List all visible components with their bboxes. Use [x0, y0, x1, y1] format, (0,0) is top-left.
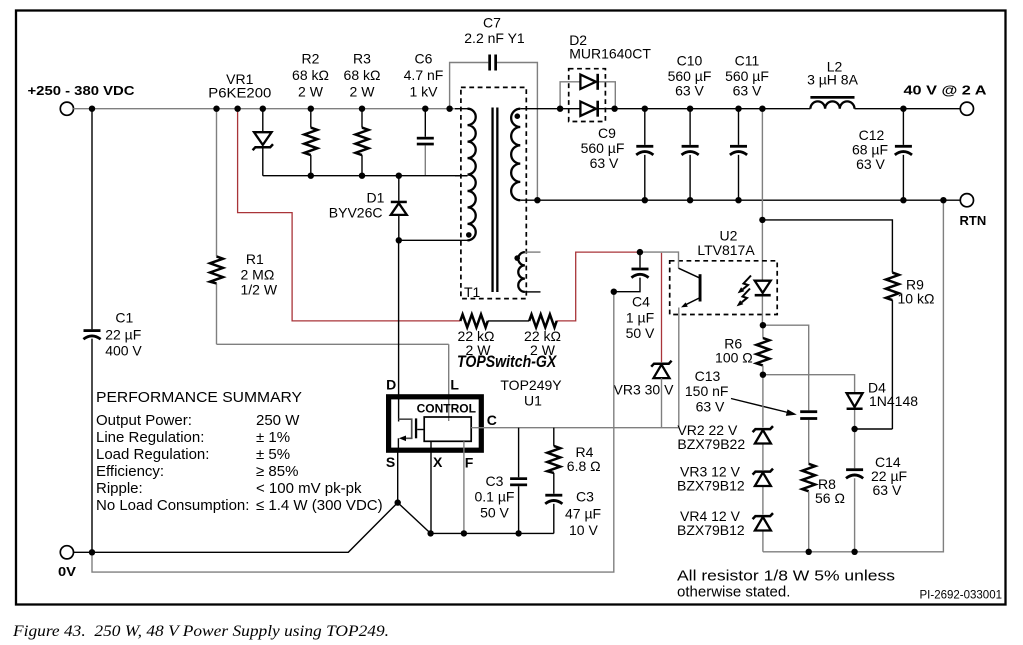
- svg-text:R3: R3: [353, 51, 371, 67]
- capacitor C13 150nF: [685, 368, 817, 420]
- svg-text:63 V: 63 V: [733, 83, 762, 99]
- U1 MOSFET: [398, 418, 424, 452]
- capacitor C3 0.1uF: [475, 428, 528, 534]
- wire: drain vertical to U1: [398, 240, 400, 421]
- svg-text:1 kV: 1 kV: [409, 84, 438, 100]
- svg-text:All resistor 1/8 W 5% unless: All resistor 1/8 W 5% unless: [677, 568, 895, 585]
- inductor L2: [807, 59, 859, 109]
- svg-text:400 V: 400 V: [105, 343, 142, 359]
- svg-text:C11: C11: [735, 53, 760, 69]
- svg-text:63 V: 63 V: [873, 482, 902, 498]
- wire: X pin: [430, 441, 432, 533]
- svg-text:D: D: [386, 377, 396, 393]
- svg-text:RTN: RTN: [960, 213, 987, 228]
- U1 block outline: [389, 397, 482, 450]
- resistor R9 10k: [886, 273, 935, 429]
- TVS VR1 P6KE200: [208, 71, 273, 176]
- wire: primary bottom to drain node: [399, 239, 468, 241]
- svg-text:2 MΩ: 2 MΩ: [241, 267, 275, 283]
- svg-text:0.1 µF: 0.1 µF: [475, 489, 515, 505]
- svg-text:63 V: 63 V: [675, 83, 704, 99]
- svg-text:47 µF: 47 µF: [565, 506, 601, 522]
- input terminal +250-380 VDC: [28, 83, 136, 115]
- svg-text:C13: C13: [695, 368, 721, 384]
- svg-text:≥ 85%: ≥ 85%: [256, 463, 298, 480]
- svg-text:X: X: [433, 454, 443, 470]
- TOPSwitch-GX title: [457, 353, 557, 371]
- RTN terminal: [960, 194, 987, 228]
- svg-text:+250 - 380 VDC: +250 - 380 VDC: [28, 83, 136, 98]
- svg-text:63 V: 63 V: [696, 399, 725, 415]
- svg-text:R2: R2: [302, 51, 320, 67]
- 22k resistor pair (line sense): [458, 314, 495, 358]
- opto transistor: [679, 268, 702, 307]
- wire: red VR3 30V top lead: [661, 253, 663, 362]
- svg-text:2.2 nF Y1: 2.2 nF Y1: [464, 30, 525, 46]
- svg-text:U1: U1: [524, 393, 542, 409]
- svg-text:0V: 0V: [58, 564, 76, 579]
- capacitor C9: [581, 109, 654, 201]
- svg-text:LTV817A: LTV817A: [697, 242, 755, 258]
- svg-text:BYV26C: BYV26C: [329, 205, 383, 221]
- svg-text:C10: C10: [677, 53, 703, 69]
- svg-text:C3: C3: [576, 489, 594, 505]
- opto photon arrows: [737, 276, 751, 307]
- resistor R1 2 MOhm: [210, 251, 278, 298]
- capacitor C12: [852, 109, 912, 201]
- svg-text:150 nF: 150 nF: [685, 383, 729, 399]
- wire: C pin line: [471, 427, 678, 429]
- wire: D4 node down to C14: [854, 429, 856, 552]
- svg-text:C6: C6: [415, 51, 433, 67]
- svg-text:L: L: [450, 377, 459, 393]
- transformer bias winding: [514, 252, 540, 292]
- svg-text:≤ 1.4 W (300 VDC): ≤ 1.4 W (300 VDC): [256, 497, 383, 514]
- svg-text:1N4148: 1N4148: [869, 393, 918, 409]
- wire: output rail: [520, 108, 960, 110]
- wire: S pin to kelvin point: [397, 452, 399, 502]
- wire: opto emitter down to C pin line: [678, 308, 680, 428]
- wire: R6 bottom to D4: [763, 375, 855, 393]
- svg-text:250 W: 250 W: [256, 412, 300, 429]
- wire: red 22k chain to C4 top: [557, 252, 638, 321]
- wire: F pin: [463, 441, 465, 533]
- svg-text:CONTROL: CONTROL: [417, 402, 476, 416]
- wire: S/X/F bottom bus: [431, 532, 554, 534]
- performance summary text: [96, 389, 383, 514]
- resistor R4 6.8 Ohm: [547, 428, 600, 494]
- wire: clamp bottom bus: [263, 175, 468, 177]
- svg-text:6.8 Ω: 6.8 Ω: [567, 458, 601, 474]
- svg-text:BZX79B22: BZX79B22: [677, 436, 745, 452]
- transformer T1 dashed box: [461, 87, 526, 300]
- wire: R9 top link: [762, 220, 892, 273]
- svg-text:P6KE200: P6KE200: [208, 85, 271, 101]
- svg-text:PI-2692-033001: PI-2692-033001: [920, 590, 1002, 602]
- capacitor C11: [725, 53, 769, 201]
- svg-text:22 µF: 22 µF: [105, 327, 141, 343]
- output terminal 40V: [904, 83, 988, 116]
- wire: red line-sense feed (rail to 22k chain): [238, 109, 461, 321]
- capacitor C7 2.2nF Y1: [464, 15, 525, 71]
- svg-text:BZX79B12: BZX79B12: [677, 522, 745, 538]
- svg-text:TOP249Y: TOP249Y: [500, 377, 562, 393]
- wire: top HV rail: [73, 108, 458, 110]
- U1 CONTROL inner box: [417, 402, 476, 442]
- wire: opto LED node to R6: [762, 325, 764, 338]
- svg-text:Figure 43. 250 W, 48 V Power: Figure 43. 250 W, 48 V Power Supply usin…: [12, 623, 389, 640]
- svg-text:68 kΩ: 68 kΩ: [292, 67, 329, 83]
- 0V terminal: [58, 546, 76, 579]
- svg-text:No Load Consumption:: No Load Consumption:: [96, 497, 249, 514]
- diode D1 BYV26C: [329, 176, 407, 241]
- svg-text:Ripple:: Ripple:: [96, 480, 143, 497]
- svg-text:Load Regulation:: Load Regulation:: [96, 446, 209, 463]
- svg-text:1 µF: 1 µF: [626, 310, 654, 326]
- svg-text:10 kΩ: 10 kΩ: [898, 291, 935, 307]
- zener VR3 12V BZX79B12: [677, 464, 773, 515]
- svg-text:100 Ω: 100 Ω: [715, 350, 753, 366]
- wire: zener bottom bus to RTN: [763, 200, 944, 552]
- svg-text:63 V: 63 V: [856, 156, 885, 172]
- capacitor C6 4.7nF: [404, 51, 444, 176]
- svg-text:63 V: 63 V: [590, 155, 619, 171]
- svg-text:C7: C7: [483, 15, 501, 31]
- transformer core: [491, 108, 493, 293]
- svg-text:MUR1640CT: MUR1640CT: [569, 46, 651, 62]
- zener VR3 30V: [614, 361, 675, 428]
- svg-text:T1: T1: [464, 284, 481, 300]
- wire: C13 branch: [763, 325, 809, 464]
- transformer primary winding: [455, 109, 476, 241]
- zener VR2 22V BZX79B22: [677, 375, 773, 470]
- svg-text:C9: C9: [598, 125, 616, 141]
- svg-text:68 kΩ: 68 kΩ: [344, 67, 381, 83]
- svg-text:56 Ω: 56 Ω: [815, 490, 845, 506]
- svg-text:otherwise stated.: otherwise stated.: [677, 584, 790, 601]
- wire: C4 return to 0V: [92, 292, 614, 572]
- svg-text:PERFORMANCE SUMMARY: PERFORMANCE SUMMARY: [96, 389, 302, 406]
- wire: R1 / line-sense branch: [217, 109, 449, 421]
- capacitor C14 22uF: [846, 454, 907, 498]
- svg-text:10 V: 10 V: [569, 522, 598, 538]
- resistor R8 56 Ohm: [802, 464, 845, 552]
- svg-text:560 µF: 560 µF: [581, 140, 625, 156]
- svg-text:± 1%: ± 1%: [256, 429, 290, 446]
- resistor R2 68k: [292, 51, 329, 176]
- svg-text:Output Power:: Output Power:: [96, 412, 192, 429]
- wire: C7 loop: [450, 63, 538, 201]
- capacitor C10: [668, 53, 712, 201]
- capacitor C1: [83, 310, 142, 359]
- diode D4 1N4148: [847, 380, 919, 430]
- svg-text:50 V: 50 V: [480, 505, 509, 521]
- svg-text:Line Regulation:: Line Regulation:: [96, 429, 204, 446]
- wire: D4 cathode to R9 bottom: [855, 428, 893, 430]
- wire: C1 branch vertical: [91, 109, 93, 553]
- wire: opto collector feed from C4 node: [640, 252, 679, 268]
- svg-text:VR3 30 V: VR3 30 V: [614, 382, 675, 398]
- diode D2 MUR1640CT dual: [560, 32, 651, 122]
- svg-text:C: C: [487, 412, 497, 428]
- resistor R3 68k: [344, 51, 381, 176]
- wire: 0V bus with kelvin diagonals: [73, 503, 430, 553]
- svg-text:4.7 nF: 4.7 nF: [404, 67, 444, 83]
- svg-text:2 W: 2 W: [350, 84, 376, 100]
- opto LED: [755, 281, 771, 326]
- svg-text:1/2 W: 1/2 W: [241, 282, 278, 298]
- svg-text:Efficiency:: Efficiency:: [96, 463, 164, 480]
- svg-text:R1: R1: [246, 251, 264, 267]
- svg-text:S: S: [386, 454, 395, 470]
- svg-text:2 W: 2 W: [298, 84, 324, 100]
- transformer secondary winding: [511, 109, 520, 201]
- capacitor C3 47uF: [545, 489, 601, 539]
- svg-text:C3: C3: [486, 473, 504, 489]
- svg-text:F: F: [465, 455, 474, 471]
- note: all resistor: [677, 568, 895, 601]
- svg-text:D1: D1: [367, 190, 385, 206]
- svg-text:40 V @ 2 A: 40 V @ 2 A: [904, 83, 988, 98]
- resistor R6 100 Ohm: [715, 336, 769, 375]
- wire: feedback tap from output rail: [761, 109, 763, 281]
- zener VR4 12V BZX79B12: [677, 508, 773, 552]
- svg-text:BZX79B12: BZX79B12: [677, 478, 745, 494]
- svg-text:TOPSwitch-GX: TOPSwitch-GX: [457, 353, 557, 371]
- svg-text:C1: C1: [115, 310, 133, 326]
- svg-text:< 100 mV pk-pk: < 100 mV pk-pk: [256, 480, 362, 497]
- svg-text:50 V: 50 V: [626, 325, 655, 341]
- svg-text:C4: C4: [632, 294, 650, 310]
- svg-text:3 µH 8A: 3 µH 8A: [807, 72, 859, 88]
- optocoupler U2 LTV817A: [670, 228, 778, 315]
- svg-text:± 5%: ± 5%: [256, 446, 290, 463]
- wire: secondary return bus: [520, 199, 960, 201]
- capacitor C4 1uF: [614, 252, 655, 341]
